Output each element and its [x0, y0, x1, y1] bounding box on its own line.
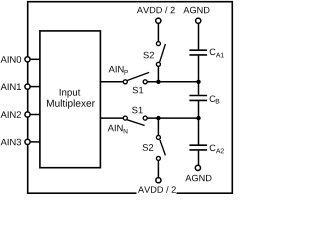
wire AIN0 stub [28, 58, 40, 60]
pin AGND bottom [195, 165, 200, 170]
label AGND bottom [185, 175, 211, 182]
input multiplexer box U1 [40, 31, 101, 168]
wire AVDD/2 pin to S2 [157, 23, 159, 41]
switch S1 bottom [123, 107, 147, 126]
pin AVDD/2 top [156, 18, 161, 23]
pin AIN1 [1, 84, 30, 90]
wire S1 to sampling node bottom [147, 117, 198, 119]
pin AVDD/2 bottom [156, 178, 161, 183]
label AGND top [183, 7, 209, 14]
pin AIN0 [1, 56, 30, 63]
switch S2 top [143, 42, 165, 67]
wire AIN3 stub [28, 141, 40, 143]
capacitor CA1 [189, 49, 223, 58]
wire AINN node to S2 bottom [157, 118, 159, 135]
wire AINN from mux to switch S1 [100, 117, 123, 119]
junction node AINN switch column [156, 116, 160, 120]
wire S2 to AVDD/2 pin bottom [157, 161, 159, 178]
wire AINN node to CA2 [198, 118, 200, 144]
wire CA1 to AINP node [198, 56, 200, 82]
pin AIN2 [1, 111, 30, 118]
junction node AINP cap column [196, 80, 200, 84]
wire AGND pin to CA1 [198, 23, 200, 49]
capacitor CB [189, 95, 219, 103]
label AVDD/2 top [137, 7, 175, 14]
label Input Multiplexer [47, 89, 95, 109]
junction node AINN cap column [196, 116, 200, 120]
wire S1 to sampling node [147, 81, 198, 83]
pin AGND top [196, 18, 201, 23]
node AINP label [109, 66, 128, 75]
node AINN label [108, 125, 128, 134]
wire AIN2 stub [28, 114, 40, 116]
wire AINP from mux to switch S1 [100, 81, 123, 83]
pin AIN3 [1, 139, 30, 146]
wire AIN1 stub [28, 86, 40, 88]
wire AINP node to CB [198, 82, 200, 95]
capacitor CA2 [189, 145, 223, 154]
wire CA2 to AGND pin bottom [198, 151, 200, 166]
wire CB to AINN node [198, 101, 200, 118]
junction node AINP switch column [156, 80, 160, 84]
switch S2 bottom [143, 135, 166, 160]
switch S1 top [123, 72, 149, 93]
wire S2 to AINP node [157, 66, 159, 82]
label AVDD/2 bottom [138, 186, 176, 193]
device boundary box [28, 2, 233, 194]
gap in boundary behind bottom AVDD/2 label [137, 192, 177, 195]
